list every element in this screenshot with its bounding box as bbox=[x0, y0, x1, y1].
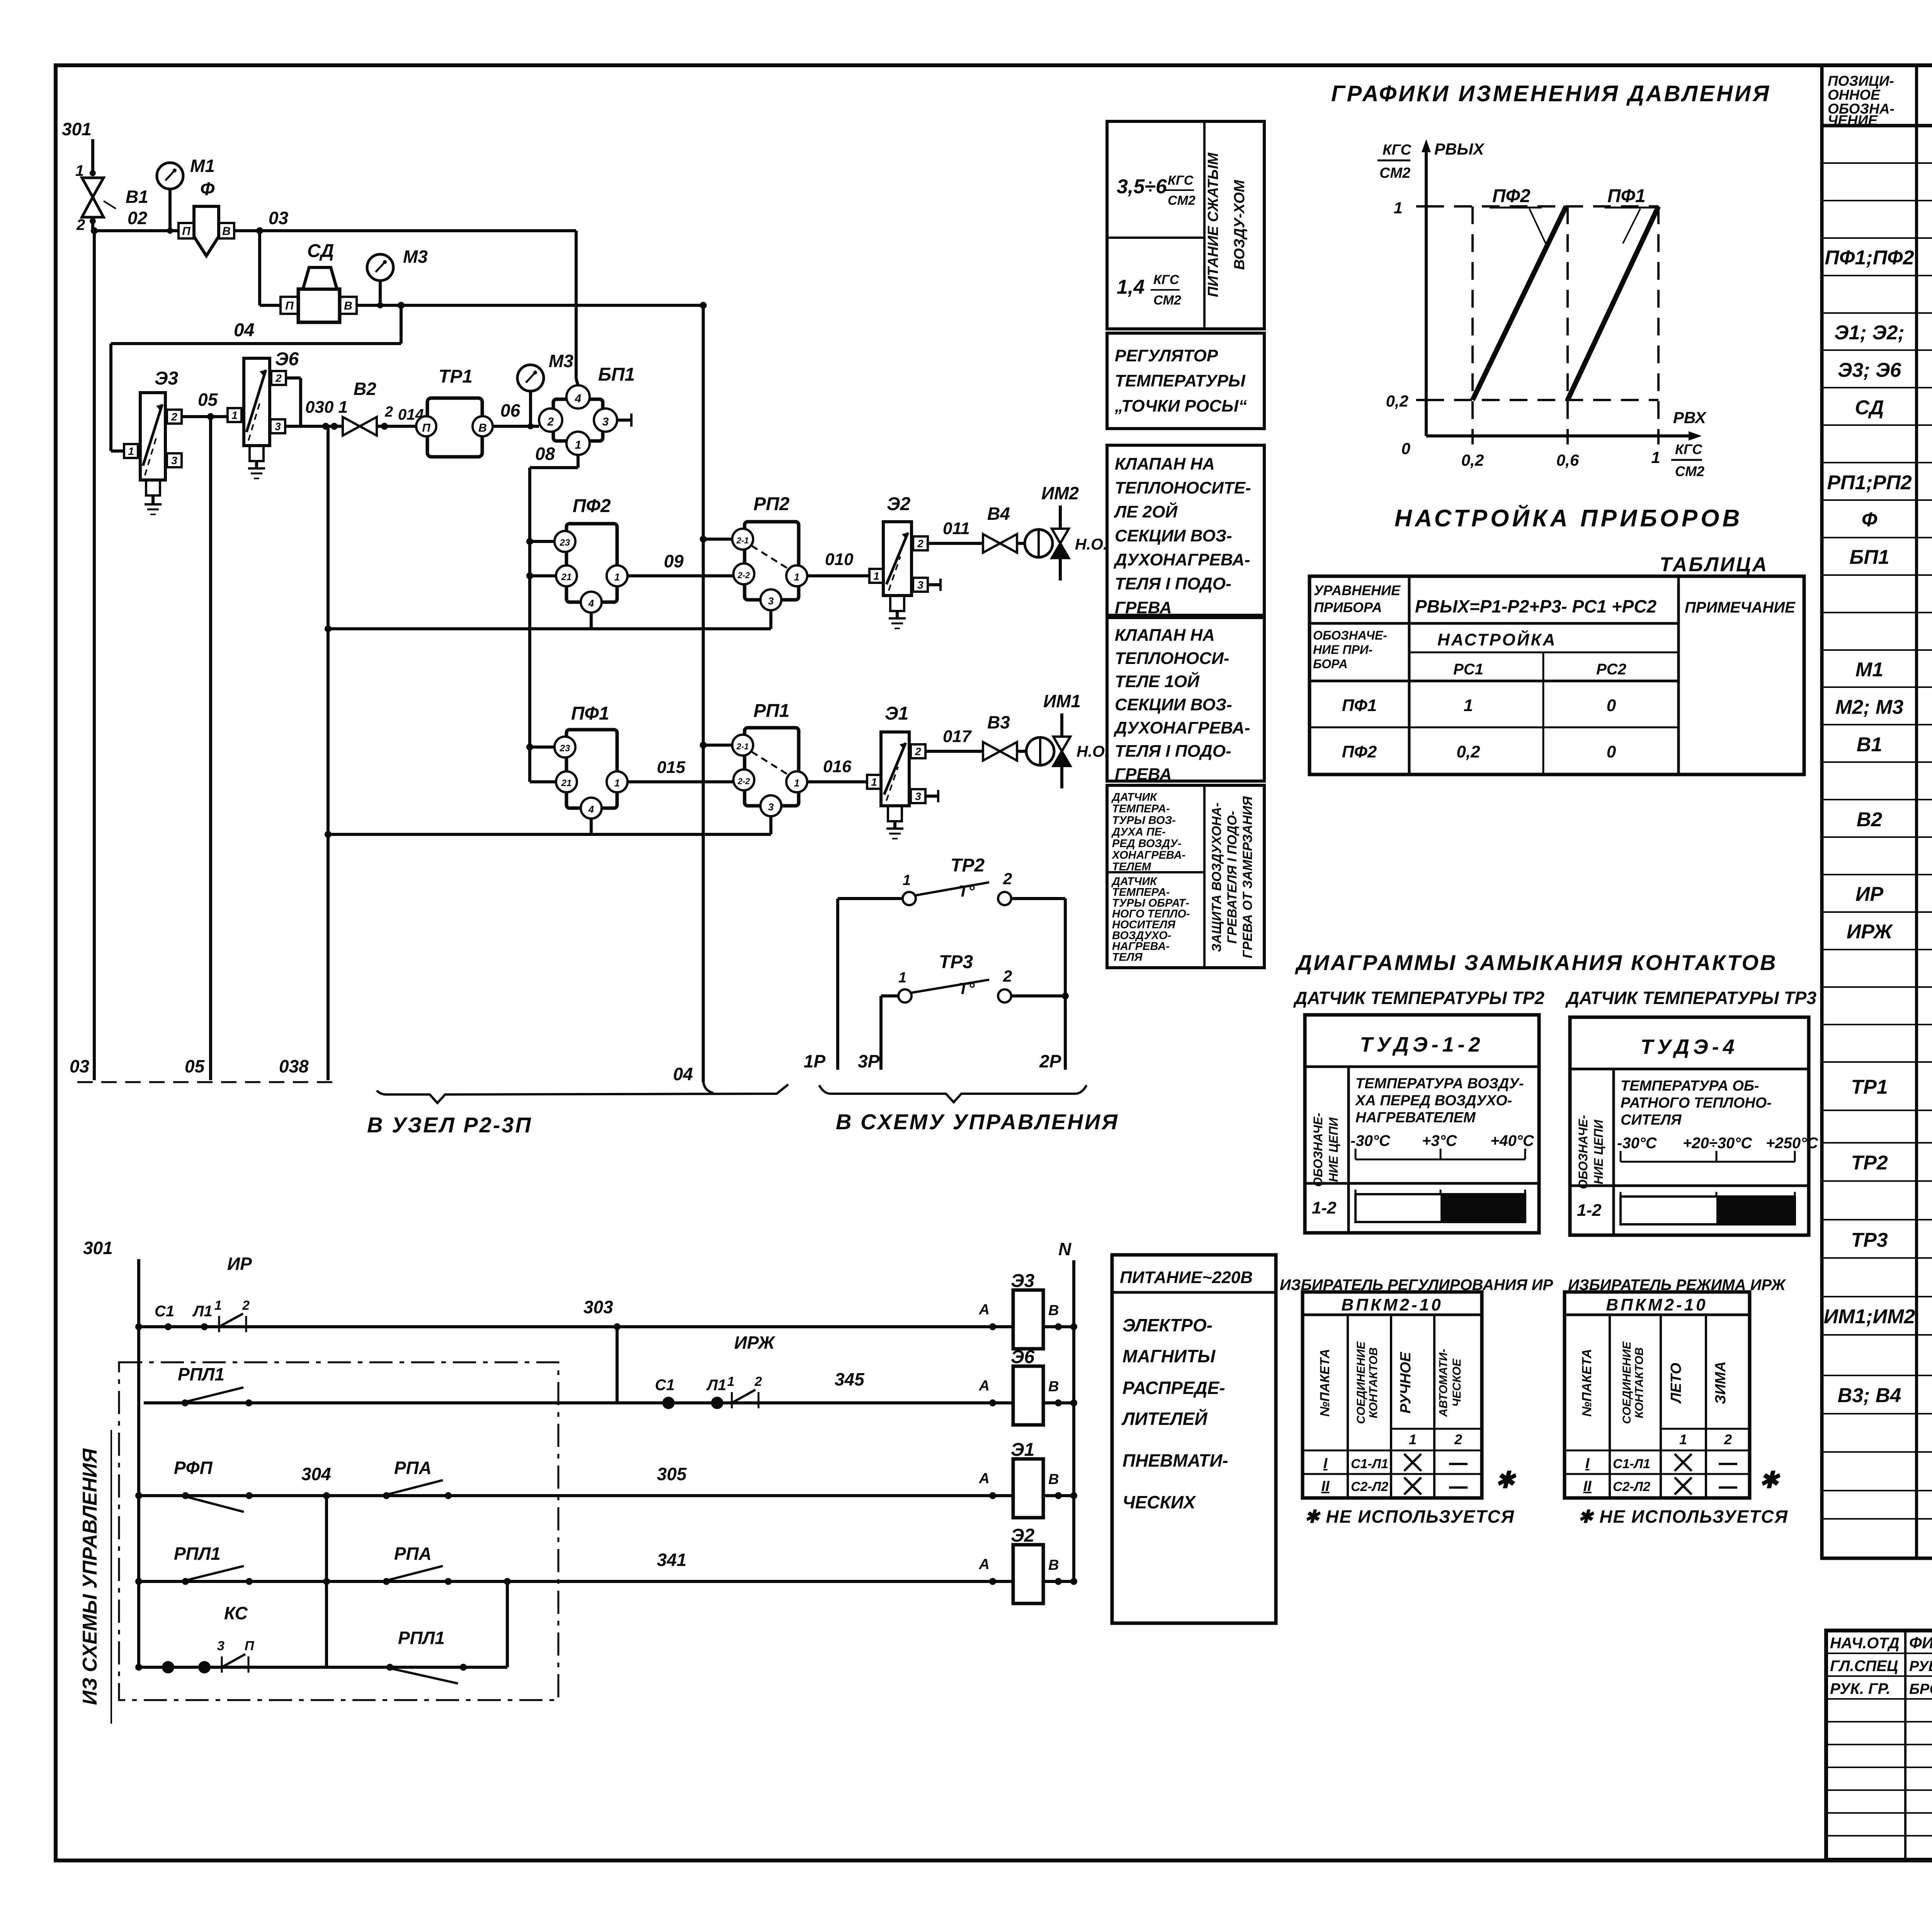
svg-text:0: 0 bbox=[1607, 742, 1616, 761]
svg-text:1: 1 bbox=[214, 1298, 222, 1313]
svg-text:РПА: РПА bbox=[394, 1544, 432, 1564]
svg-text:1: 1 bbox=[794, 777, 799, 789]
wires 08 taps to PF2 bbox=[530, 540, 554, 543]
parts table header text bbox=[1828, 73, 1932, 128]
svg-text:ТУДЭ-4: ТУДЭ-4 bbox=[1640, 1035, 1738, 1059]
svg-text:1: 1 bbox=[614, 777, 620, 789]
right bus N bbox=[1072, 1260, 1075, 1581]
svg-text:РУБЧИНСКИЙ: РУБЧИНСКИЙ bbox=[1909, 1657, 1932, 1675]
wire 015 bbox=[628, 780, 733, 783]
parts table row texts bbox=[1824, 169, 1932, 1446]
svg-text:3: 3 bbox=[768, 595, 774, 607]
wire 030 1 bbox=[285, 425, 343, 428]
svg-text:011: 011 bbox=[943, 519, 970, 538]
switching relay RP1 bbox=[732, 701, 807, 816]
svg-text:ДИАГРАММЫ ЗАМЫКАНИЯ КОНТАКТО: ДИАГРАММЫ ЗАМЫКАНИЯ КОНТАКТОВ bbox=[1295, 950, 1777, 975]
svg-text:1: 1 bbox=[614, 571, 620, 583]
svg-text:1: 1 bbox=[898, 970, 906, 986]
svg-text:В УЗЕЛ Р2-3П: В УЗЕЛ Р2-3П bbox=[367, 1113, 532, 1137]
svg-text:РАТНОГО ТЕПЛОНО-: РАТНОГО ТЕПЛОНО- bbox=[1621, 1095, 1772, 1111]
svg-text:НИЕ ЦЕПИ: НИЕ ЦЕПИ bbox=[1592, 1119, 1605, 1184]
svg-text:ЛЕТО: ЛЕТО bbox=[1668, 1363, 1684, 1404]
svg-text:+20÷30°С: +20÷30°С bbox=[1683, 1135, 1752, 1152]
svg-text:СОЕДИНЕНИЕ: СОЕДИНЕНИЕ bbox=[1355, 1341, 1367, 1424]
svg-text:038: 038 bbox=[279, 1056, 309, 1076]
svg-text:Э3; Э6: Э3; Э6 bbox=[1838, 359, 1901, 381]
svg-text:2Р: 2Р bbox=[1039, 1051, 1061, 1071]
svg-text:В: В bbox=[344, 300, 352, 312]
svg-text:ОБОЗНАЧЕ-: ОБОЗНАЧЕ- bbox=[1313, 628, 1387, 642]
svg-text:21: 21 bbox=[561, 572, 572, 582]
svg-text:РП2: РП2 bbox=[753, 494, 790, 514]
svg-text:3: 3 bbox=[217, 1639, 224, 1653]
svg-text:05: 05 bbox=[198, 390, 218, 410]
summing device PF1 bbox=[554, 703, 628, 819]
svg-text:НАСТРОЙКА ПРИБОРОВ: НАСТРОЙКА ПРИБОРОВ bbox=[1395, 504, 1743, 532]
svg-text:МАГНИТЫ: МАГНИТЫ bbox=[1122, 1346, 1216, 1366]
svg-text:1: 1 bbox=[1394, 199, 1403, 217]
wire 03 down to SD bbox=[258, 231, 261, 305]
svg-text:Т°: Т° bbox=[958, 882, 975, 900]
gauge M3 (near BP1) bbox=[517, 351, 573, 429]
svg-text:1: 1 bbox=[231, 409, 238, 421]
signature rows text bbox=[1830, 1633, 1932, 1698]
wire RP1 2-1 to 04 bus bbox=[703, 744, 732, 747]
svg-text:Л1: Л1 bbox=[706, 1377, 726, 1394]
svg-text:3: 3 bbox=[768, 801, 774, 813]
wire 011 bbox=[928, 542, 983, 545]
parts list table frame bbox=[1822, 65, 1932, 1558]
graph axes bbox=[1416, 139, 1702, 444]
svg-text:ГРЕВА ОТ ЗАМЕРЗАНИЯ: ГРЕВА ОТ ЗАМЕРЗАНИЯ bbox=[1240, 796, 1255, 958]
title block signature grid bbox=[1826, 1631, 1932, 1860]
coil E1 bbox=[1013, 1459, 1043, 1518]
svg-text:2-2: 2-2 bbox=[737, 776, 750, 786]
rotated text iz shemy upravleniya bbox=[79, 1430, 111, 1724]
svg-text:ПФ1: ПФ1 bbox=[1607, 186, 1646, 206]
svg-text:С1: С1 bbox=[155, 1303, 174, 1320]
svg-text:2-2: 2-2 bbox=[737, 570, 750, 580]
svg-text:ТЕПЛОНОСИ-: ТЕПЛОНОСИ- bbox=[1115, 649, 1229, 668]
svg-text:030 1: 030 1 bbox=[305, 398, 348, 417]
svg-text:II: II bbox=[1583, 1478, 1592, 1494]
svg-text:I: I bbox=[1585, 1455, 1590, 1472]
svg-text:НАЧ.ОТД: НАЧ.ОТД bbox=[1830, 1635, 1900, 1652]
svg-text:В3: В3 bbox=[987, 712, 1010, 732]
svg-text:305: 305 bbox=[657, 1464, 687, 1484]
svg-text:3: 3 bbox=[915, 790, 921, 802]
svg-text:II: II bbox=[1321, 1478, 1330, 1494]
wire 06 bbox=[493, 425, 539, 428]
svg-text:БП1: БП1 bbox=[1849, 546, 1889, 568]
svg-text:ПИТАНИЕ~220В: ПИТАНИЕ~220В bbox=[1120, 1268, 1253, 1287]
svg-text:НИЕ ПРИ-: НИЕ ПРИ- bbox=[1313, 643, 1372, 657]
svg-text:06: 06 bbox=[500, 400, 520, 420]
svg-text:1Р: 1Р bbox=[804, 1051, 826, 1071]
svg-text:ПИТАНИЕ СЖАТЫМ: ПИТАНИЕ СЖАТЫМ bbox=[1205, 152, 1221, 297]
svg-text:В4: В4 bbox=[987, 504, 1010, 524]
wire 016 bbox=[807, 780, 867, 783]
svg-text:ВПКМ2-10: ВПКМ2-10 bbox=[1341, 1295, 1443, 1314]
svg-text:Э3: Э3 bbox=[1011, 1271, 1035, 1291]
svg-text:1: 1 bbox=[1679, 1431, 1687, 1447]
svg-text:ТУДЭ-1-2: ТУДЭ-1-2 bbox=[1360, 1033, 1484, 1056]
svg-text:+250°С: +250°С bbox=[1766, 1135, 1818, 1152]
coil E3 bbox=[1013, 1290, 1043, 1349]
svg-text:ПРИБОРА: ПРИБОРА bbox=[1314, 599, 1382, 615]
contact RPL1 (rung 341) bbox=[182, 1578, 189, 1585]
rung 345 wire bbox=[144, 1401, 1013, 1404]
svg-text:КОНТАКТОВ: КОНТАКТОВ bbox=[1633, 1347, 1646, 1418]
bus 04 vertical right bbox=[673, 302, 713, 1093]
svg-text:2: 2 bbox=[1454, 1431, 1462, 1447]
svg-text:РЕД ВОЗДУ-: РЕД ВОЗДУ- bbox=[1112, 837, 1181, 850]
svg-text:2: 2 bbox=[1003, 967, 1012, 985]
svg-text:ДАТЧИК ТЕМПЕРАТУРЫ ТР3: ДАТЧИК ТЕМПЕРАТУРЫ ТР3 bbox=[1565, 988, 1816, 1008]
svg-text:1: 1 bbox=[1464, 696, 1473, 715]
svg-text:ТЕЛЯ: ТЕЛЯ bbox=[1112, 951, 1143, 963]
title block frame bbox=[1826, 1631, 1932, 1860]
svg-text:ЧЕСКОЕ: ЧЕСКОЕ bbox=[1451, 1358, 1463, 1407]
svg-text:С1: С1 bbox=[655, 1377, 675, 1394]
svg-text:РВЫХ: РВЫХ bbox=[1434, 140, 1485, 158]
svg-text:4: 4 bbox=[575, 392, 582, 405]
label PF1 with leader bbox=[1605, 186, 1657, 243]
svg-text:СМ2: СМ2 bbox=[1168, 193, 1196, 208]
wire 04 from SD bbox=[111, 302, 703, 451]
svg-text:-30°С: -30°С bbox=[1350, 1132, 1391, 1149]
svg-text:ГРЕВАТЕЛЯ I ПОДО-: ГРЕВАТЕЛЯ I ПОДО- bbox=[1225, 811, 1240, 944]
svg-text:АВТОМАТИ-: АВТОМАТИ- bbox=[1437, 1349, 1450, 1417]
svg-text:+40°С: +40°С bbox=[1490, 1132, 1534, 1149]
svg-text:ТР3: ТР3 bbox=[939, 952, 973, 972]
svg-text:ДУХОНАГРЕВА-: ДУХОНАГРЕВА- bbox=[1113, 550, 1250, 569]
svg-text:Э2: Э2 bbox=[887, 494, 911, 514]
svg-text:РП1: РП1 bbox=[753, 701, 789, 721]
graph line PF1 bbox=[1568, 206, 1658, 400]
svg-text:ТЕМПЕРАТУРЫ: ТЕМПЕРАТУРЫ bbox=[1115, 371, 1246, 390]
contact RPA (rung 305) bbox=[383, 1492, 390, 1499]
svg-text:Э1; Э2;: Э1; Э2; bbox=[1834, 322, 1905, 344]
svg-text:23: 23 bbox=[560, 538, 570, 548]
svg-text:ТЕМПЕРАТУРА ВОЗДУ-: ТЕМПЕРАТУРА ВОЗДУ- bbox=[1355, 1076, 1524, 1092]
contacts C1 L1 (rung 345) bbox=[662, 1397, 675, 1409]
svg-text:-30°С: -30°С bbox=[1617, 1135, 1657, 1152]
distributor E2 bbox=[869, 494, 940, 628]
svg-text:В1: В1 bbox=[1857, 734, 1882, 756]
svg-text:С1-Л1: С1-Л1 bbox=[1613, 1457, 1650, 1471]
svg-text:СЕКЦИИ ВОЗ-: СЕКЦИИ ВОЗ- bbox=[1115, 526, 1232, 545]
svg-text:П: П bbox=[422, 422, 431, 434]
svg-text:РУЧНОЕ: РУЧНОЕ bbox=[1398, 1351, 1414, 1414]
svg-text:РУК. ГР.: РУК. ГР. bbox=[1830, 1680, 1890, 1697]
svg-text:А: А bbox=[979, 1302, 990, 1318]
svg-text:0: 0 bbox=[1607, 696, 1616, 715]
svg-text:2: 2 bbox=[242, 1298, 250, 1313]
svg-text:А: А bbox=[979, 1471, 990, 1487]
svg-text:В2: В2 bbox=[354, 379, 376, 399]
table TUDE-1-2 bbox=[1305, 1015, 1539, 1233]
svg-text:ИР: ИР bbox=[227, 1254, 252, 1274]
svg-text:СМ2: СМ2 bbox=[1379, 165, 1410, 181]
svg-text:303: 303 bbox=[583, 1297, 613, 1317]
svg-text:А: А bbox=[979, 1556, 990, 1573]
contact RFP bbox=[182, 1492, 189, 1499]
svg-text:3: 3 bbox=[275, 420, 281, 432]
svg-text:Ф: Ф bbox=[200, 179, 215, 199]
filter F bbox=[179, 179, 234, 256]
legend box 4: valve section 1 bbox=[1107, 618, 1264, 784]
svg-text:304: 304 bbox=[301, 1464, 331, 1484]
valve B1 bbox=[82, 178, 148, 217]
wire 09 bbox=[628, 574, 733, 577]
svg-text:2: 2 bbox=[76, 216, 85, 233]
svg-text:ИРЖ: ИРЖ bbox=[1847, 921, 1893, 943]
legend box 1: supply pressures bbox=[1107, 121, 1264, 329]
svg-text:Т°: Т° bbox=[958, 979, 975, 997]
svg-text:В3; В4: В3; В4 bbox=[1838, 1384, 1901, 1407]
svg-text:ЧЕСКИХ: ЧЕСКИХ bbox=[1122, 1492, 1196, 1512]
switch IR bbox=[218, 1316, 220, 1332]
svg-text:КГС: КГС bbox=[1675, 441, 1702, 457]
svg-text:№ПАКЕТА: №ПАКЕТА bbox=[1580, 1349, 1594, 1417]
svg-text:301: 301 bbox=[83, 1238, 113, 1258]
svg-text:015: 015 bbox=[657, 758, 685, 777]
svg-text:Э2: Э2 bbox=[1011, 1525, 1035, 1546]
power supply box bbox=[1112, 1255, 1276, 1623]
svg-text:341: 341 bbox=[657, 1550, 687, 1570]
svg-text:В: В bbox=[1048, 1379, 1059, 1395]
table VPKM2-10 (IRZh) bbox=[1565, 1292, 1788, 1527]
svg-text:В: В bbox=[1048, 1302, 1059, 1319]
svg-text:0,2: 0,2 bbox=[1461, 451, 1484, 469]
legend box 3: valve section 2 bbox=[1107, 445, 1264, 617]
wire PF1-4/RP1-3 to line 2159 bbox=[325, 816, 771, 838]
svg-text:ТЕМПЕРА-: ТЕМПЕРА- bbox=[1112, 803, 1170, 815]
switch IRZh bbox=[731, 1392, 733, 1408]
svg-text:21: 21 bbox=[561, 778, 572, 788]
svg-text:3Р: 3Р bbox=[858, 1051, 880, 1071]
svg-text:2: 2 bbox=[1003, 870, 1012, 888]
coil E6 bbox=[1013, 1366, 1043, 1425]
wire up to rung 341 bbox=[506, 1581, 509, 1667]
graph line PF2 bbox=[1473, 206, 1566, 400]
svg-text:1: 1 bbox=[1409, 1431, 1417, 1447]
svg-text:БРОНШТЕЙН: БРОНШТЕЙН bbox=[1909, 1680, 1932, 1697]
svg-text:1-2: 1-2 bbox=[1577, 1201, 1602, 1220]
svg-text:Э6: Э6 bbox=[275, 349, 299, 369]
svg-text:Э1: Э1 bbox=[1011, 1440, 1034, 1460]
svg-text:1: 1 bbox=[871, 776, 877, 788]
svg-text:ИЗ СХЕМЫ УПРАВЛЕНИЯ: ИЗ СХЕМЫ УПРАВЛЕНИЯ bbox=[79, 1448, 101, 1705]
svg-text:2: 2 bbox=[384, 404, 393, 420]
svg-text:301: 301 bbox=[62, 119, 92, 139]
svg-text:В: В bbox=[222, 225, 231, 238]
svg-text:ТУРЫ ВОЗ-: ТУРЫ ВОЗ- bbox=[1112, 814, 1176, 827]
svg-text:БП1: БП1 bbox=[598, 364, 635, 385]
svg-text:В СХЕМУ УПРАВЛЕНИЯ: В СХЕМУ УПРАВЛЕНИЯ bbox=[836, 1110, 1119, 1134]
svg-text:ИМ2: ИМ2 bbox=[1041, 483, 1079, 503]
switching relay RP2 bbox=[732, 494, 807, 610]
svg-text:РВХ: РВХ bbox=[1673, 408, 1707, 427]
svg-text:НАСТРОЙКА: НАСТРОЙКА bbox=[1437, 630, 1556, 649]
svg-text:ЭЛЕКТРО-: ЭЛЕКТРО- bbox=[1122, 1315, 1213, 1335]
contact TR2 bbox=[838, 855, 1065, 1070]
svg-text:ФИНГЕР: ФИНГЕР bbox=[1909, 1634, 1932, 1652]
svg-text:ТР2: ТР2 bbox=[951, 855, 985, 876]
svg-text:03: 03 bbox=[70, 1056, 90, 1076]
svg-text:+3°С: +3°С bbox=[1422, 1132, 1458, 1149]
svg-text:010: 010 bbox=[825, 550, 854, 569]
legend box 2: regulator bbox=[1107, 333, 1264, 429]
svg-text:ДУХОНАГРЕВА-: ДУХОНАГРЕВА- bbox=[1113, 718, 1250, 737]
svg-text:ТР3: ТР3 bbox=[1851, 1229, 1888, 1251]
svg-text:ТЕМПЕРАТУРА ОБ-: ТЕМПЕРАТУРА ОБ- bbox=[1621, 1078, 1759, 1094]
svg-text:М1: М1 bbox=[190, 156, 215, 176]
distributor E1 bbox=[867, 703, 938, 839]
svg-text:0,2: 0,2 bbox=[1456, 742, 1480, 761]
svg-text:ГРАФИКИ ИЗМЕНЕНИЯ ДАВЛЕНИЯ: ГРАФИКИ ИЗМЕНЕНИЯ ДАВЛЕНИЯ bbox=[1331, 81, 1771, 106]
svg-text:П: П bbox=[245, 1639, 255, 1653]
labels 1P 3P 2P bbox=[804, 1051, 1061, 1071]
svg-text:ПФ1;ПФ2: ПФ1;ПФ2 bbox=[1825, 247, 1914, 269]
svg-text:КГС: КГС bbox=[1168, 173, 1194, 188]
svg-text:УРАВНЕНИЕ: УРАВНЕНИЕ bbox=[1314, 582, 1401, 598]
svg-text:017: 017 bbox=[943, 727, 972, 746]
thermoregulator TR1 bbox=[416, 366, 493, 457]
dash-dot enclosure bbox=[119, 1362, 558, 1700]
svg-text:КГС: КГС bbox=[1153, 272, 1179, 287]
svg-text:РПЛ1: РПЛ1 bbox=[178, 1364, 224, 1384]
svg-text:Л1: Л1 bbox=[192, 1303, 213, 1320]
svg-text:2: 2 bbox=[1724, 1431, 1732, 1447]
svg-text:РЕГУЛЯТОР: РЕГУЛЯТОР bbox=[1115, 346, 1218, 365]
svg-text:В: В bbox=[478, 422, 487, 434]
svg-text:ПОЗИЦИ-: ПОЗИЦИ- bbox=[1828, 73, 1894, 89]
svg-text:ОБОЗНАЧЕ-: ОБОЗНАЧЕ- bbox=[1576, 1115, 1590, 1189]
svg-text:ТЕЛЕМ: ТЕЛЕМ bbox=[1112, 861, 1151, 873]
svg-text:СОЕДИНЕНИЕ: СОЕДИНЕНИЕ bbox=[1621, 1341, 1633, 1424]
svg-text:В1: В1 bbox=[126, 187, 148, 207]
svg-text:№ПАКЕТА: №ПАКЕТА bbox=[1318, 1349, 1332, 1417]
dashed bracket line bbox=[77, 1081, 332, 1083]
svg-text:ТР2: ТР2 bbox=[1851, 1152, 1888, 1174]
svg-text:ЧЕНИЕ: ЧЕНИЕ bbox=[1828, 112, 1878, 128]
nastroika table bbox=[1310, 576, 1804, 774]
svg-text:1: 1 bbox=[1651, 448, 1660, 466]
svg-text:ТР1: ТР1 bbox=[439, 366, 473, 387]
valve B2 bbox=[343, 379, 377, 436]
svg-text:4: 4 bbox=[588, 597, 594, 609]
svg-text:3: 3 bbox=[171, 454, 177, 466]
contact RPA (rung 341) bbox=[383, 1578, 390, 1585]
svg-text:ВПКМ2-10: ВПКМ2-10 bbox=[1606, 1295, 1708, 1314]
table TUDE-4 bbox=[1570, 1017, 1818, 1235]
svg-text:ПФ1: ПФ1 bbox=[1342, 696, 1377, 715]
svg-text:ТЕЛЯ I ПОДО-: ТЕЛЯ I ПОДО- bbox=[1115, 574, 1231, 593]
svg-text:Н.О.: Н.О. bbox=[1077, 742, 1109, 760]
bypass panel BP1 bbox=[539, 364, 635, 455]
svg-text:РФП: РФП bbox=[174, 1458, 213, 1478]
svg-text:ТЕПЛОНОСИТЕ-: ТЕПЛОНОСИТЕ- bbox=[1115, 478, 1251, 497]
svg-text:ПНЕВМАТИ-: ПНЕВМАТИ- bbox=[1122, 1450, 1228, 1471]
svg-text:СД: СД bbox=[307, 241, 334, 261]
svg-text:РП1;РП2: РП1;РП2 bbox=[1827, 471, 1912, 494]
svg-text:345: 345 bbox=[835, 1369, 865, 1389]
svg-text:КЛАПАН НА: КЛАПАН НА bbox=[1115, 626, 1215, 645]
wire 05 bbox=[182, 415, 228, 418]
svg-text:П: П bbox=[182, 225, 191, 238]
svg-text:1,4: 1,4 bbox=[1117, 276, 1145, 298]
svg-text:СМ2: СМ2 bbox=[1675, 463, 1704, 479]
svg-text:ВОЗДУ-ХОМ: ВОЗДУ-ХОМ bbox=[1231, 179, 1248, 270]
bus 03 vertical bbox=[93, 231, 96, 1080]
svg-text:Э6: Э6 bbox=[1011, 1347, 1035, 1367]
graph dashed construction lines bbox=[1426, 206, 1658, 436]
svg-text:1: 1 bbox=[903, 872, 911, 888]
svg-text:2-1: 2-1 bbox=[736, 742, 749, 751]
svg-text:В2: В2 bbox=[1857, 808, 1883, 831]
wire from 03 down to BP1 port4 bbox=[575, 231, 578, 379]
svg-text:РПЛ1: РПЛ1 bbox=[174, 1544, 221, 1564]
svg-text:„ТОЧКИ РОСЫ“: „ТОЧКИ РОСЫ“ bbox=[1114, 397, 1247, 415]
svg-text:ХА ПЕРЕД ВОЗДУХО-: ХА ПЕРЕД ВОЗДУХО- bbox=[1355, 1093, 1512, 1109]
svg-text:РПА: РПА bbox=[394, 1458, 432, 1478]
svg-text:СМ2: СМ2 bbox=[1153, 293, 1181, 308]
label PF2 with leader bbox=[1490, 186, 1548, 247]
svg-text:✱ НЕ ИСПОЛЬЗУЕТСЯ: ✱ НЕ ИСПОЛЬЗУЕТСЯ bbox=[1578, 1506, 1788, 1527]
svg-text:ПФ2: ПФ2 bbox=[573, 496, 611, 516]
svg-text:2: 2 bbox=[754, 1374, 762, 1389]
svg-text:I: I bbox=[1323, 1455, 1328, 1472]
svg-text:ОННОЕ: ОННОЕ bbox=[1828, 87, 1881, 103]
svg-text:N: N bbox=[1058, 1239, 1071, 1259]
svg-text:1: 1 bbox=[727, 1374, 735, 1389]
brace v uzel bbox=[377, 1084, 788, 1103]
svg-text:ТЕЛЯ I ПОДО-: ТЕЛЯ I ПОДО- bbox=[1115, 742, 1231, 761]
svg-text:ЛЕ 2ОЙ: ЛЕ 2ОЙ bbox=[1114, 502, 1178, 521]
svg-text:Э3: Э3 bbox=[155, 368, 179, 389]
svg-text:ОБОЗНАЧЕ-: ОБОЗНАЧЕ- bbox=[1311, 1113, 1325, 1187]
svg-text:С2-Л2: С2-Л2 bbox=[1613, 1479, 1650, 1494]
distributor E3 bbox=[124, 368, 182, 514]
svg-text:КОНТАКТОВ: КОНТАКТОВ bbox=[1367, 1347, 1380, 1418]
wire 010 bbox=[807, 574, 869, 577]
svg-text:ДУХА ПЕ-: ДУХА ПЕ- bbox=[1111, 826, 1166, 838]
wire PF2-4/RP2-3 to line 1627 bbox=[325, 610, 771, 632]
svg-text:С2-Л2: С2-Л2 bbox=[1351, 1479, 1388, 1494]
svg-text:1: 1 bbox=[873, 570, 879, 582]
svg-text:0: 0 bbox=[1401, 439, 1410, 458]
coil E2 bbox=[1013, 1545, 1043, 1603]
svg-text:ИРЖ: ИРЖ bbox=[734, 1333, 776, 1353]
svg-text:04: 04 bbox=[673, 1064, 693, 1084]
svg-text:РВЫХ=Р1-Р2+Р3- РС1 +РС2: РВЫХ=Р1-Р2+Р3- РС1 +РС2 bbox=[1415, 596, 1657, 616]
wire 08 bbox=[530, 444, 578, 782]
rung 303 wire bbox=[139, 1325, 1013, 1328]
svg-text:ИР: ИР bbox=[1855, 883, 1883, 905]
svg-text:СЕКЦИИ ВОЗ-: СЕКЦИИ ВОЗ- bbox=[1115, 695, 1232, 714]
brace v shemu bbox=[819, 1085, 1087, 1102]
svg-text:23: 23 bbox=[560, 743, 570, 754]
svg-text:ИМ1;ИМ2: ИМ1;ИМ2 bbox=[1824, 1305, 1915, 1328]
svg-text:ХОНАГРЕВА-: ХОНАГРЕВА- bbox=[1111, 849, 1185, 861]
svg-text:0,6: 0,6 bbox=[1556, 451, 1579, 469]
actuator IM2 bbox=[1017, 483, 1107, 580]
svg-text:2: 2 bbox=[171, 411, 177, 423]
svg-text:КЛАПАН НА: КЛАПАН НА bbox=[1115, 454, 1215, 473]
contact RPL1 (rung 345) bbox=[182, 1399, 189, 1406]
